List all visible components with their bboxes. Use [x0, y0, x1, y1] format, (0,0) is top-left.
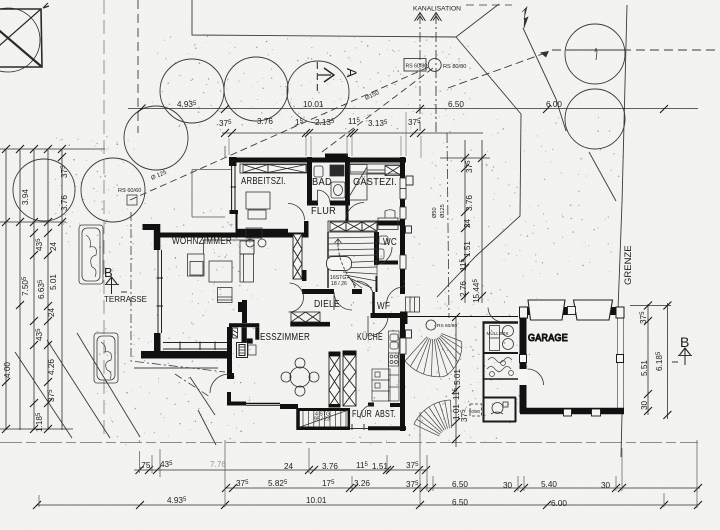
bottom extension verticals [39, 412, 697, 508]
main stair [327, 232, 378, 288]
x-column diele/wohnzimmer [293, 234, 302, 279]
svg-text:WOHNZIMMER: WOHNZIMMER [172, 236, 232, 247]
terrace planter 2 [94, 333, 118, 383]
svg-text:10.01: 10.01 [303, 100, 324, 109]
svg-text:1.51: 1.51 [463, 241, 472, 257]
svg-text:2.76: 2.76 [459, 281, 468, 297]
esszimmer top wall A [229, 323, 259, 327]
svg-text:Ø50: Ø50 [432, 207, 438, 218]
svg-text:KANALISATION: KANALISATION [413, 6, 461, 13]
sewer dashed diagonal D1 [130, 66, 431, 200]
svg-text:3.94: 3.94 [21, 189, 30, 205]
west window long [157, 250, 164, 333]
north boundary polyline [192, 0, 456, 37]
kanalisation arrow 1 [415, 13, 442, 22]
svg-text:60/80: 60/80 [469, 409, 481, 414]
stair top band [328, 221, 377, 232]
tree T6 [81, 158, 145, 222]
tick in tree T7 [595, 48, 597, 60]
entrance steps outside wf [406, 297, 420, 312]
gaestezi window band [350, 164, 402, 176]
svg-text:6.50: 6.50 [452, 480, 468, 489]
esszimmer bottom window [246, 403, 280, 405]
basement stair treads [300, 411, 347, 428]
right wall shutter boxes [406, 176, 413, 185]
basement stair block [296, 408, 300, 430]
svg-text:WF: WF [377, 301, 390, 312]
garage skylight trapezoids [528, 300, 613, 320]
bottom-left path diagonals [15, 352, 72, 438]
svg-text:5.01: 5.01 [49, 274, 58, 290]
bottom dim row B [225, 487, 700, 489]
gaestezi bottom wall [345, 221, 349, 226]
esszimmer sw jog [227, 373, 234, 379]
svg-text:10.01: 10.01 [306, 496, 327, 505]
bottom dim row C [37, 504, 698, 506]
x-columns esszimmer/kueche [329, 351, 357, 408]
svg-text:.75: .75 [139, 461, 151, 470]
svg-text:ESSZIMMER: ESSZIMMER [260, 332, 310, 343]
porch outline [192, 146, 231, 217]
tree T1 [160, 59, 224, 123]
door arcs [210, 190, 404, 419]
muellbox complex [483, 308, 519, 423]
svg-text:4.00: 4.00 [3, 362, 12, 378]
svg-text:5.51: 5.51 [640, 360, 649, 376]
svg-text:6.00: 6.00 [551, 499, 567, 508]
diele south wall C [290, 322, 330, 327]
right garage chains [647, 304, 649, 415]
svg-text:24: 24 [284, 462, 294, 471]
svg-text:3.76: 3.76 [60, 195, 69, 211]
jagged north arrow [522, 7, 528, 28]
tree T5 [13, 159, 75, 221]
svg-text:TERRASSE: TERRASSE [104, 294, 147, 304]
svg-text:5.40: 5.40 [541, 480, 557, 489]
wf/diele wall [302, 289, 334, 294]
svg-text:5.01: 5.01 [453, 369, 462, 385]
full-width ground line [0, 442, 698, 444]
left outer wall upper block [229, 157, 237, 166]
sewer dashed diagonal D2 [322, 68, 433, 152]
svg-text:24: 24 [47, 307, 56, 317]
fireplace [237, 343, 257, 358]
boundary spur to top edge [456, 4, 499, 37]
sideboard x-band above wall C [291, 312, 320, 322]
svg-text:6.50: 6.50 [448, 100, 464, 109]
garage vents [564, 409, 572, 416]
svg-text:30: 30 [601, 481, 611, 490]
terrace step nib [143, 224, 155, 230]
furniture gaestezi [350, 165, 399, 230]
terrace planter 1 [79, 225, 103, 284]
rs 60/80 circle mid [426, 320, 436, 330]
muellbox bins [490, 326, 514, 351]
flur abst corridor walls [368, 403, 374, 407]
bad fixtures [314, 165, 345, 198]
wc fixtures [378, 236, 388, 259]
tree T4 [124, 106, 188, 170]
right outer wall [400, 157, 405, 294]
felled tree symbol top-left [0, 3, 49, 72]
sewer dashdot vertical [435, 14, 437, 133]
kitchen top wall [371, 313, 403, 318]
RS manhole square [404, 59, 426, 72]
east boundary diagonal [437, 37, 521, 297]
x-column post [302, 270, 307, 281]
garage walls [520, 307, 625, 315]
spiral stair chain [455, 317, 457, 447]
tree T3 [287, 61, 349, 123]
svg-text:6.00: 6.00 [546, 100, 562, 109]
wohnzimmer bottom wall [141, 351, 228, 359]
right mid vertical chains [464, 140, 466, 303]
svg-text:24: 24 [463, 218, 472, 228]
svg-text:ABST.: ABST. [375, 409, 396, 420]
svg-text:7.76: 7.76 [210, 460, 226, 469]
diele west wall [242, 300, 247, 323]
left chain ticks [2, 145, 66, 433]
west wall lower block [154, 333, 161, 352]
svg-text:Ø125: Ø125 [440, 204, 446, 218]
extension lines above house [229, 112, 421, 158]
tree T2 [224, 57, 288, 121]
bad/gaestezi wall [345, 157, 350, 203]
svg-text:FLUR: FLUR [311, 206, 336, 217]
house floor fill [134, 112, 421, 431]
svg-text:RS 60/60: RS 60/60 [118, 188, 141, 194]
bad bottom wall [307, 201, 318, 206]
svg-text:3.76: 3.76 [257, 117, 273, 126]
dashdot sewer to house [131, 212, 225, 372]
svg-text:30: 30 [640, 400, 649, 410]
svg-text:RS 60/80: RS 60/80 [437, 323, 457, 329]
furniture arbeitszi [246, 192, 270, 247]
esszimmer west wall [227, 327, 232, 374]
svg-text:1.51: 1.51 [372, 462, 388, 471]
ticks on main dim line [138, 105, 669, 114]
inner L wall [242, 327, 247, 343]
svg-text:3.76: 3.76 [465, 195, 474, 211]
svg-text:24: 24 [49, 241, 58, 251]
svg-text:95 / 23: 95 / 23 [314, 417, 330, 423]
furniture wohnzimmer [188, 240, 256, 303]
svg-text:DIELE: DIELE [314, 299, 340, 310]
top edge dashes [466, 4, 512, 6]
svg-text:3.26: 3.26 [354, 479, 370, 488]
grenze line [618, 5, 627, 310]
top outer wall [229, 158, 406, 163]
svg-text:18 / 26: 18 / 26 [331, 281, 347, 287]
wohnzimmer bottom window band [163, 342, 227, 351]
esszimmer bottom wall thick part [280, 404, 298, 409]
tree T7 [565, 24, 625, 84]
hatched post [233, 328, 238, 338]
terrace edge line [134, 367, 218, 369]
dashed line x138 [137, 0, 139, 133]
bottom dim row A [134, 469, 426, 471]
left chain anchor lines [0, 148, 105, 150]
left chain labels (rotated) [3, 165, 69, 432]
dashed line with arrow to tree [448, 52, 548, 88]
grenze below garage [621, 414, 622, 457]
svg-text:3.76: 3.76 [322, 462, 338, 471]
svg-text:MÜLLBOX: MÜLLBOX [487, 330, 509, 336]
room labels [172, 176, 397, 423]
shrubs compartment [487, 358, 514, 377]
svg-text:GRENZE: GRENZE [623, 245, 634, 285]
spiral stair fan [405, 333, 462, 436]
garden table lower box [491, 402, 508, 414]
esszimmer table [281, 358, 319, 396]
right wall windows [400, 178, 406, 354]
wohnzimmer top wall band [154, 233, 305, 238]
arbeitszi/flur wall [307, 157, 312, 203]
svg-text:WC: WC [383, 237, 397, 248]
svg-text:GARAGE: GARAGE [528, 333, 568, 344]
diagonal from tree T8 to grenze [589, 152, 616, 201]
svg-text:A: A [344, 68, 360, 78]
west property line [103, 0, 105, 438]
dashed horizontal through tree [552, 49, 716, 51]
kueche fixtures [372, 331, 399, 401]
svg-text:4.26: 4.26 [47, 359, 56, 375]
svg-text:BAD: BAD [312, 177, 332, 188]
svg-text:GÄSTEZI.: GÄSTEZI. [353, 176, 397, 188]
wc room [374, 232, 379, 262]
svg-text:KÜCHE: KÜCHE [357, 331, 383, 343]
fence house to garage [406, 316, 518, 318]
svg-text:FLUR: FLUR [352, 409, 372, 420]
svg-text:ARBEITSZI.: ARBEITSZI. [241, 176, 286, 187]
corner blocks [520, 307, 625, 363]
section A marker [317, 62, 334, 95]
RS manhole circle [428, 58, 441, 71]
threshold [350, 424, 368, 430]
svg-text:RS 60/80: RS 60/80 [406, 64, 428, 70]
svg-text:6.50: 6.50 [452, 498, 468, 507]
second dim line y133 [222, 132, 483, 134]
tree T8 [565, 89, 625, 149]
left vertical chain lines [5, 150, 7, 430]
60/80 dashed box [470, 404, 482, 416]
arbeitszi window band [240, 164, 307, 173]
svg-text:RS 80/80: RS 80/80 [443, 64, 466, 70]
garage door gap west [519, 369, 528, 385]
svg-text:30: 30 [503, 481, 513, 490]
main horizontal dim line y109 [128, 108, 698, 110]
